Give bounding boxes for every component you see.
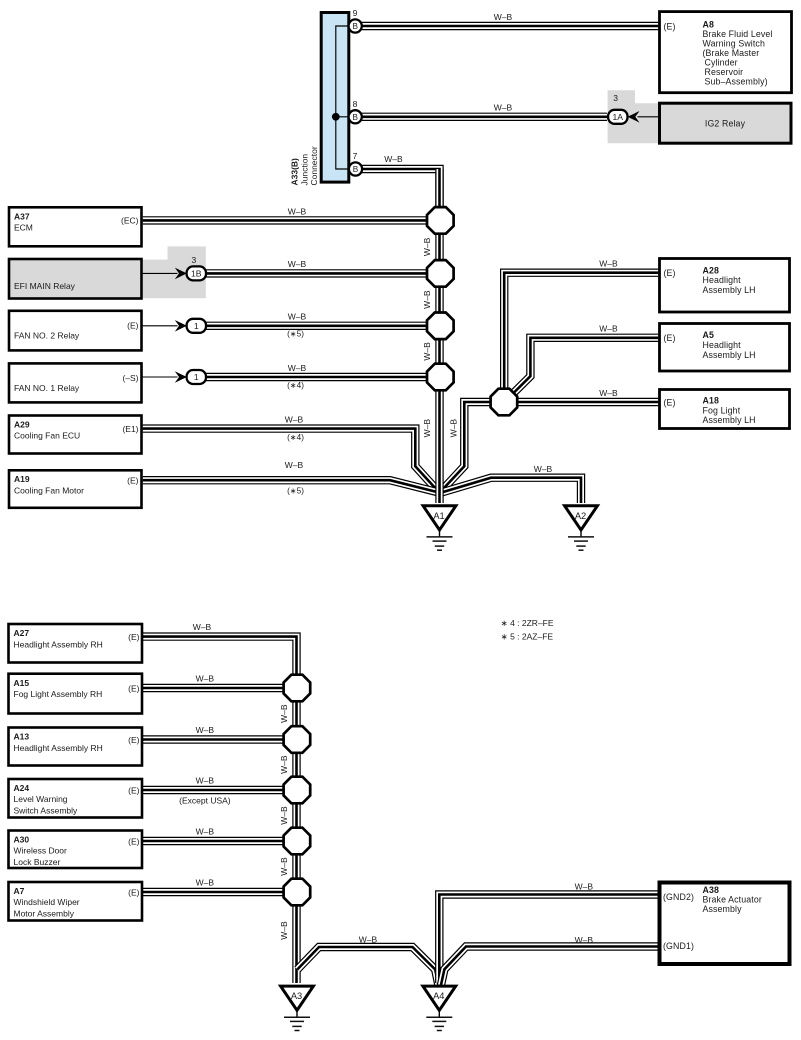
box A18 Fog Light Assembly LH (660, 390, 790, 429)
junction octagon at A15 row (284, 675, 311, 702)
svg-text:Assembly LH: Assembly LH (703, 350, 756, 360)
text A19 Cooling Fan Motor (14, 474, 139, 495)
junction connector A33(B) body (321, 13, 349, 183)
svg-text:1A: 1A (613, 112, 624, 122)
box FAN NO.2 Relay (9, 311, 142, 351)
svg-text:B: B (352, 113, 358, 122)
svg-text:W–B: W–B (534, 464, 553, 474)
svg-text:A5: A5 (703, 330, 715, 340)
box A7 Windshield Wiper Motor Assembly (9, 882, 143, 921)
svg-text:W–B: W–B (422, 290, 432, 309)
svg-text:A13: A13 (14, 732, 30, 742)
connector 1A pin 3 (608, 110, 627, 124)
svg-text:(E): (E) (664, 397, 676, 407)
svg-text:1: 1 (194, 372, 199, 382)
text A8 Brake Fluid Level Warning Switch (664, 20, 773, 87)
svg-text:Brake Actuator: Brake Actuator (703, 895, 762, 905)
wire EFI MAIN Relay row from 1B (W-B) (206, 269, 432, 277)
svg-text:A24: A24 (14, 783, 30, 793)
svg-text:W–B: W–B (279, 921, 289, 940)
connector 1B pin 3 (187, 266, 206, 280)
svg-text:(E): (E) (664, 268, 676, 278)
svg-text:W–B: W–B (599, 388, 618, 398)
box IG2 Relay (660, 103, 792, 143)
svg-text:(E): (E) (127, 476, 139, 486)
svg-text:Cooling Fan Motor: Cooling Fan Motor (14, 486, 84, 496)
wire junction J2 exit to ground A1 (W-B) (440, 402, 500, 492)
svg-text:W–B: W–B (279, 704, 289, 723)
text FAN NO.2 Relay (14, 321, 139, 341)
svg-text:(GND1): (GND1) (663, 941, 694, 951)
svg-text:W–B: W–B (575, 882, 594, 892)
wire A30 Wireless Door Lock Buzzer row (W-B) (143, 837, 290, 845)
svg-text:(Except USA): (Except USA) (179, 796, 231, 806)
svg-text:Junction: Junction (300, 154, 310, 186)
box A19 Cooling Fan Motor (9, 470, 142, 508)
svg-text:W–B: W–B (599, 323, 618, 333)
wire pin 8 to connector 1A (W-B) (362, 113, 608, 121)
svg-text:W–B: W–B (494, 12, 513, 22)
wire FAN NO.2 Relay row (W-B) (206, 322, 432, 330)
svg-text:(E): (E) (128, 735, 140, 745)
text A18 Fog Light Assembly LH (664, 395, 756, 425)
svg-text:9: 9 (353, 8, 358, 18)
junction octagon J2 (headlight group) (491, 389, 518, 416)
wire pin 7 down to junction chain (W-B) (362, 169, 440, 210)
svg-text:W–B: W–B (288, 259, 307, 269)
svg-text:A28: A28 (703, 265, 720, 275)
text A27 Headlight Assembly RH (14, 628, 140, 649)
svg-text:Reservoir: Reservoir (705, 67, 744, 77)
svg-text:A7: A7 (14, 886, 25, 896)
junction octagon at FAN NO.1 row (427, 364, 454, 391)
arrow into FAN NO.1 connector 1 (175, 371, 187, 383)
svg-text:A2: A2 (575, 511, 586, 521)
svg-text:(∗4): (∗4) (287, 433, 304, 442)
svg-text:3: 3 (613, 93, 618, 103)
svg-text:IG2 Relay: IG2 Relay (705, 118, 746, 128)
svg-text:W–B: W–B (196, 775, 215, 785)
pin 9 terminal B (349, 19, 362, 32)
svg-text:W–B: W–B (422, 237, 432, 256)
svg-text:∗ 5 : 2AZ–FE: ∗ 5 : 2AZ–FE (501, 632, 554, 642)
text A38 Brake Actuator Assembly (663, 885, 762, 951)
svg-text:FAN NO. 2 Relay: FAN NO. 2 Relay (14, 330, 80, 340)
svg-text:W–B: W–B (359, 935, 378, 945)
svg-text:Fog Light: Fog Light (703, 405, 741, 415)
connector 1B shading (EFI MAIN Relay) (143, 246, 206, 298)
svg-text:A4: A4 (433, 991, 444, 1001)
junction octagon at FAN NO.2 row (427, 313, 454, 340)
svg-text:(E): (E) (664, 21, 676, 31)
svg-text:FAN NO. 1 Relay: FAN NO. 1 Relay (14, 383, 80, 393)
svg-text:W–B: W–B (384, 154, 403, 164)
svg-text:∗ 4 : 2ZR–FE: ∗ 4 : 2ZR–FE (501, 618, 554, 628)
svg-text:W–B: W–B (279, 857, 289, 876)
svg-text:A18: A18 (703, 395, 720, 405)
svg-text:Motor Assembly: Motor Assembly (14, 909, 75, 919)
svg-text:A33(B): A33(B) (290, 158, 300, 186)
svg-text:A37: A37 (14, 211, 30, 221)
wire A24 Level Warning Switch row (W-B) (143, 786, 290, 794)
box A29 Cooling Fan ECU (9, 416, 142, 454)
wire FAN NO.1 Relay row (W-B) (206, 373, 432, 381)
svg-text:W–B: W–B (449, 419, 459, 438)
link line FAN NO.1 Relay to arrow (142, 376, 178, 378)
arrow into connector 1B (175, 268, 187, 280)
svg-text:W–B: W–B (288, 363, 307, 373)
svg-text:W–B: W–B (288, 206, 307, 216)
svg-text:(E): (E) (664, 333, 676, 343)
svg-text:A19: A19 (14, 474, 30, 484)
box A15 Fog Light Assembly RH (9, 674, 143, 714)
text FAN NO.1 Relay (14, 373, 139, 393)
wire A15 Fog Light RH row (W-B) (143, 684, 290, 692)
text A13 Headlight Assembly RH (14, 732, 140, 753)
svg-text:W–B: W–B (285, 415, 304, 425)
svg-text:W–B: W–B (196, 877, 215, 887)
svg-text:7: 7 (353, 151, 358, 161)
svg-text:A3: A3 (291, 991, 302, 1001)
wire A13 Headlight RH row (W-B) (143, 735, 290, 743)
svg-text:(Brake Master: (Brake Master (703, 48, 760, 58)
svg-text:A15: A15 (14, 678, 30, 688)
junction octagon at A37 row (427, 207, 454, 234)
svg-text:Cylinder: Cylinder (705, 58, 738, 68)
svg-text:Fog Light Assembly RH: Fog Light Assembly RH (14, 689, 103, 699)
junction octagon at A7 row (284, 879, 311, 906)
arrow into connector 1A (628, 111, 640, 123)
svg-text:(E): (E) (128, 887, 140, 897)
svg-text:Headlight: Headlight (703, 340, 742, 350)
svg-text:A38: A38 (703, 885, 720, 895)
svg-text:Wireless Door: Wireless Door (14, 846, 68, 856)
wire A27 Headlight RH down the lower chain (W-B) (143, 637, 297, 983)
wire A7 Windshield Wiper Motor row (W-B) (143, 888, 290, 896)
svg-text:Assembly LH: Assembly LH (703, 415, 756, 425)
svg-text:8: 8 (353, 99, 358, 109)
svg-text:(E): (E) (128, 836, 140, 846)
junction octagon at A13 row (284, 726, 311, 753)
svg-text:Switch Assembly: Switch Assembly (14, 806, 79, 816)
svg-text:(E): (E) (128, 683, 140, 693)
wire lower chain branch to ground A4 (W-B) (297, 947, 438, 985)
svg-text:Headlight: Headlight (703, 275, 742, 285)
box A13 Headlight Assembly RH (9, 728, 143, 766)
text A24 Level Warning Switch Assembly (14, 783, 140, 816)
text A37 ECM (14, 211, 139, 232)
svg-text:(E): (E) (128, 785, 140, 795)
svg-text:W–B: W–B (193, 622, 212, 632)
svg-text:W–B: W–B (575, 935, 594, 945)
wire A38 GND2 to ground A4 (W-B) (439, 895, 658, 984)
ground point A4 (423, 986, 456, 1030)
link line EFI MAIN Relay to arrow (142, 272, 178, 274)
svg-text:Sub–Assembly): Sub–Assembly) (705, 77, 768, 87)
svg-text:(∗4): (∗4) (287, 381, 304, 390)
svg-text:(EC): (EC) (121, 216, 139, 226)
svg-text:(∗5): (∗5) (287, 486, 304, 495)
label A33(B) Junction Connector (290, 146, 320, 185)
svg-text:W–B: W–B (422, 419, 432, 438)
box A8 Brake Fluid Level Warning Switch (660, 12, 792, 93)
svg-text:1: 1 (194, 321, 199, 331)
svg-text:A29: A29 (14, 419, 30, 429)
svg-text:Windshield Wiper: Windshield Wiper (14, 897, 80, 907)
svg-text:(E1): (E1) (122, 424, 138, 434)
box EFI MAIN Relay (9, 259, 142, 299)
box FAN NO.1 Relay (9, 363, 142, 402)
svg-text:Assembly: Assembly (703, 904, 743, 914)
svg-text:Warning Switch: Warning Switch (703, 39, 765, 49)
svg-text:W–B: W–B (285, 460, 304, 470)
wire A38 GND1 to ground A4 (W-B) (441, 947, 658, 986)
svg-text:Connector: Connector (309, 146, 319, 185)
svg-text:3: 3 (192, 255, 197, 265)
box A37 ECM (9, 207, 142, 246)
text A7 Windshield Wiper Motor Assembly (14, 886, 140, 919)
FAN NO.1 connector pin 1 (187, 370, 206, 384)
svg-text:(E): (E) (127, 321, 139, 331)
svg-text:Cooling Fan ECU: Cooling Fan ECU (14, 431, 80, 441)
svg-text:W–B: W–B (196, 725, 215, 735)
FAN NO.2 connector pin 1 (187, 319, 206, 333)
wire A29 Cooling Fan ECU to ground bundle (W-B) (143, 429, 439, 493)
svg-text:Assembly LH: Assembly LH (703, 285, 756, 295)
text A28 Headlight Assembly LH (664, 265, 756, 295)
text EFI MAIN Relay (14, 281, 76, 291)
svg-text:ECM: ECM (14, 223, 33, 233)
wire main junction chain vertical to A1 (W-B) (435, 169, 443, 503)
svg-text:W–B: W–B (288, 311, 307, 321)
wire ground A1 to ground A2 (W-B) (440, 478, 581, 503)
svg-text:W–B: W–B (494, 103, 513, 113)
svg-text:W–B: W–B (196, 826, 215, 836)
text A30 Wireless Door Lock Buzzer (14, 834, 140, 867)
box A27 Headlight Assembly RH (9, 624, 143, 663)
svg-text:(–S): (–S) (122, 373, 138, 383)
svg-text:Level Warning: Level Warning (14, 794, 68, 804)
wire A28 Headlight LH to junction J2 (W-B) (504, 273, 658, 395)
junction octagon at A24 row (284, 777, 311, 804)
junction octagon at EFI row (427, 260, 454, 287)
wire A37 row (W-B) (143, 216, 432, 224)
text IG2 Relay (705, 118, 746, 128)
ground point A3 (281, 986, 314, 1030)
svg-text:A30: A30 (14, 834, 30, 844)
pin 7 terminal B (349, 162, 362, 175)
wire A18 Fog Light LH to junction J2 (W-B) (507, 398, 658, 406)
box A30 Wireless Door Lock Buzzer (9, 831, 143, 869)
junction connector internal bus (336, 26, 350, 169)
pin 8 terminal B (349, 110, 362, 123)
svg-text:1B: 1B (191, 268, 202, 278)
box A5 Headlight Assembly LH (660, 324, 790, 372)
link line connector 1A to IG2 Relay (638, 116, 660, 118)
wire A5 Headlight LH to junction J2 (W-B) (511, 338, 658, 396)
svg-text:EFI MAIN Relay: EFI MAIN Relay (14, 281, 76, 291)
svg-text:Headlight Assembly RH: Headlight Assembly RH (14, 639, 103, 649)
text A5 Headlight Assembly LH (664, 330, 756, 360)
svg-text:A27: A27 (14, 628, 30, 638)
svg-text:W–B: W–B (422, 342, 432, 361)
svg-text:B: B (353, 165, 359, 174)
box A38 Brake Actuator Assembly (660, 883, 790, 965)
svg-text:W–B: W–B (599, 259, 618, 269)
ground point A1 (423, 506, 456, 550)
text A29 Cooling Fan ECU (14, 419, 139, 440)
svg-text:A1: A1 (433, 511, 444, 521)
svg-text:B: B (352, 22, 358, 31)
junction octagon at A30 row (284, 828, 311, 855)
connector 1A shading (IG2 Relay) (608, 90, 659, 143)
svg-text:W–B: W–B (279, 806, 289, 825)
svg-text:(GND2): (GND2) (663, 892, 694, 902)
svg-text:Headlight Assembly RH: Headlight Assembly RH (14, 743, 103, 753)
svg-text:W–B: W–B (196, 673, 215, 683)
svg-text:(E): (E) (128, 632, 140, 642)
box A24 Level Warning Switch Assembly (9, 779, 143, 818)
svg-text:A8: A8 (703, 20, 715, 30)
ground point A2 (565, 506, 598, 550)
text A15 Fog Light Assembly RH (14, 678, 140, 699)
svg-text:Brake Fluid Level: Brake Fluid Level (703, 29, 773, 39)
svg-text:(∗5): (∗5) (287, 329, 304, 338)
wire A19 Cooling Fan Motor to ground bundle (W-B) (143, 480, 439, 492)
box A28 Headlight Assembly LH (660, 259, 790, 313)
junction connector pin 8 junction dot (332, 113, 340, 121)
svg-text:W–B: W–B (279, 755, 289, 774)
wire pin 9 to A8 (W-B) (362, 22, 659, 30)
link line FAN NO.2 Relay to arrow (142, 325, 178, 327)
svg-text:Lock Buzzer: Lock Buzzer (14, 857, 61, 867)
arrow into FAN NO.2 connector 1 (175, 320, 187, 332)
